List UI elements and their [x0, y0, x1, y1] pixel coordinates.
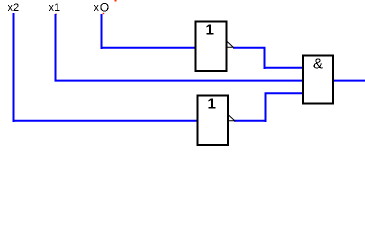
wire x0 horizontal to NOT1 input: [101, 47, 196, 49]
svg-text:x1: x1: [49, 2, 61, 14]
NOT gate U2 body: [198, 96, 229, 146]
wire to AND input 1: [264, 67, 304, 69]
wire NOT1 drop vertical: [264, 47, 266, 69]
wire NOT1 output horizontal: [233, 47, 266, 49]
wire to AND input 3: [265, 92, 304, 94]
red pin marker x1: [55, 14, 57, 15]
wire x1 vertical: [55, 14, 57, 82]
AND gate U3 body: [303, 56, 333, 104]
wire NOT2 riser vertical: [265, 92, 267, 122]
NOT gate U2 inversion triangle: [229, 115, 235, 121]
svg-text:1: 1: [207, 96, 215, 113]
red pin marker top: [115, 0, 117, 2]
NOT gate U1 inversion triangle: [227, 41, 233, 47]
wire x1 horizontal to AND input 2: [55, 80, 304, 82]
wire x2 horizontal to NOT2 input: [13, 120, 198, 122]
wire AND output: [333, 80, 365, 82]
svg-text:x2: x2: [8, 2, 20, 14]
wire x0 vertical: [101, 14, 103, 49]
svg-text:&: &: [313, 55, 323, 72]
red pin marker x0: [103, 13, 105, 14]
svg-text:O: O: [100, 0, 109, 14]
NOT gate U1 body: [196, 22, 227, 72]
wire x2 vertical: [13, 13, 15, 122]
node x0 label: [94, 0, 110, 14]
svg-text:x: x: [94, 2, 100, 14]
svg-text:1: 1: [205, 22, 213, 39]
wire NOT2 output horizontal: [234, 120, 267, 122]
